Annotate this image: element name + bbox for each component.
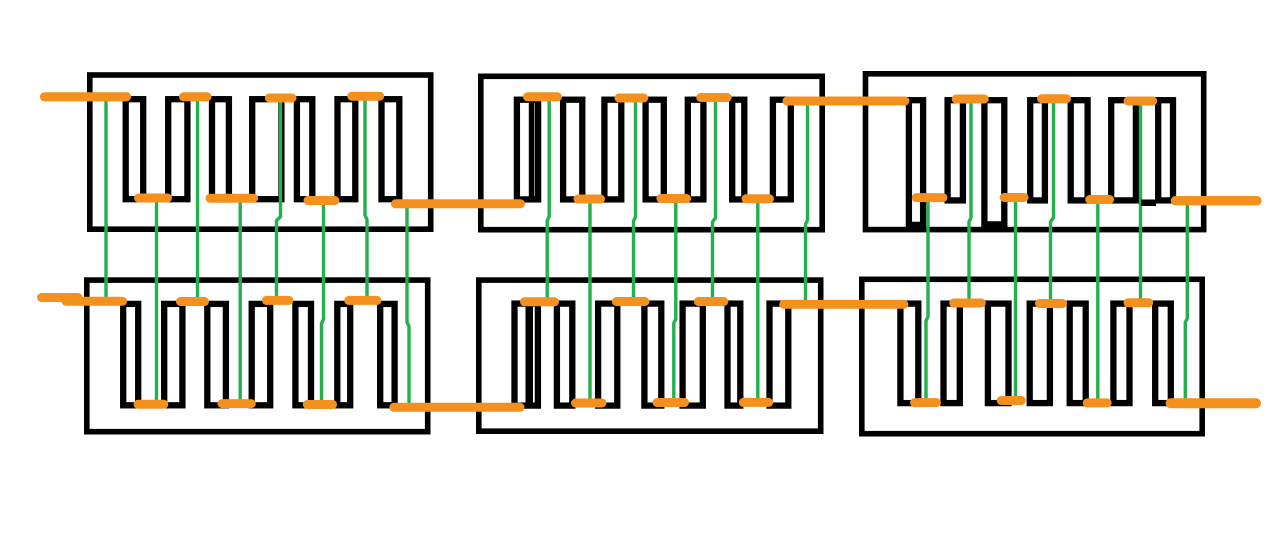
wire W5 M1/M4 strap4 bbox=[277, 101, 281, 300]
wire W17 M3/M6 strap2 bbox=[969, 100, 971, 303]
strap M5-S1 (top C1-C2) bbox=[525, 297, 555, 306]
cell M4-C1 bbox=[123, 304, 138, 405]
cell M3-C7 bbox=[1158, 100, 1173, 200]
wire W14 M2/M5 strap6 bbox=[756, 202, 759, 404]
cell M3-C3 bbox=[984, 100, 1004, 224]
strap M1-S6 (top C6-C7) bbox=[352, 92, 380, 101]
strap M4-S6 (top C6-C7) bbox=[349, 296, 377, 305]
cell M2-C4 bbox=[646, 100, 664, 200]
interconnect L3 (M4 exit -> M5 entry, bottom) bbox=[394, 403, 520, 412]
strap M4-S2 (top C2-C3) bbox=[181, 297, 205, 306]
cell M1-C2 bbox=[168, 99, 187, 199]
cell M5-C4 bbox=[644, 304, 661, 406]
cell M2-C3 bbox=[604, 100, 621, 200]
cell M2-C1 bbox=[517, 100, 538, 200]
strap M3-S2 (top C2-C3) bbox=[956, 95, 984, 104]
strap M6-S1 (bottom C1-C2) bbox=[915, 398, 937, 407]
cell M6-C7 bbox=[1155, 304, 1171, 404]
input lead T3 (M4 entry, top-left) bbox=[42, 298, 123, 302]
strap M4-S5 (bottom C5-C6) bbox=[307, 400, 332, 409]
wire W1 input M1->M4 bbox=[104, 100, 107, 301]
wire W8 link1 M1-M2 -> M4-M5 bbox=[407, 205, 409, 407]
strap M3-S3 (bottom C3-C4) bbox=[1004, 193, 1024, 202]
strap M3-S1 (bottom C1-C2) bbox=[916, 193, 943, 202]
strap M6-S6 (top C6-C7) bbox=[1128, 298, 1149, 307]
wire W19 M3/M6 strap4 bbox=[1051, 99, 1054, 304]
strap M2-S1 (top C1-C2) bbox=[528, 92, 558, 101]
module box M2 bbox=[481, 76, 822, 229]
cell M3-C1 bbox=[909, 100, 923, 225]
cell M6-C4 bbox=[1030, 304, 1050, 404]
wire W4 M1/M4 strap3 bbox=[238, 199, 241, 404]
wire W13 M2/M5 strap5 bbox=[713, 101, 716, 303]
strap M1-S5 (bottom C5-C6) bbox=[308, 196, 335, 205]
strap M4-S4 (top C4-C5) bbox=[266, 296, 289, 305]
strap M2-S6 (bottom C6-C7) bbox=[746, 194, 770, 203]
strap M1-S1 (bottom C1-C2) bbox=[139, 194, 168, 203]
wire W11 M2/M5 strap3 bbox=[634, 100, 636, 302]
strap M1-S2 (top C2-C3) bbox=[184, 92, 208, 101]
cell M5-C7 bbox=[770, 304, 789, 406]
cell M5-C1 bbox=[515, 304, 538, 406]
module box M6 bbox=[862, 279, 1202, 433]
module box M4 bbox=[87, 280, 428, 432]
strap M6-S3 (bottom C3-C4) bbox=[1001, 396, 1021, 405]
cell M6-C1 bbox=[900, 304, 918, 404]
wire W20 M3/M6 strap5 bbox=[1096, 202, 1099, 404]
input lead T1 (M1 entry, top-left) bbox=[45, 92, 127, 101]
cell M5-C2 bbox=[557, 304, 572, 406]
cell M6-C6 bbox=[1113, 304, 1129, 404]
cell M6-C5 bbox=[1070, 304, 1086, 404]
cell M4-C6 bbox=[337, 304, 350, 405]
strap M3-S6 (top C6-C7) bbox=[1128, 97, 1153, 106]
wire W15 link2 M2-M3 -> M5-M6 bbox=[806, 104, 808, 304]
cell M1-C7 bbox=[382, 99, 400, 199]
cell M2-C5 bbox=[688, 100, 704, 200]
output lead T4 (M6 exit, bottom-right) bbox=[1171, 398, 1256, 408]
cell M4-C5 bbox=[295, 304, 311, 405]
cell M3-C7 bottom-bar overshoot bbox=[1141, 200, 1156, 207]
cell M4-C4 bbox=[252, 304, 271, 405]
cell M1-C1 bbox=[126, 99, 144, 199]
cell M4-C2 bbox=[164, 304, 182, 405]
cell M1-C6 bbox=[338, 99, 356, 199]
strap M2-S2 (bottom C2-C3) bbox=[578, 195, 601, 204]
module box M1 bbox=[90, 75, 431, 229]
cell M3-C5 bbox=[1071, 100, 1088, 200]
cell M5-C5 bbox=[683, 304, 703, 406]
interconnect L2 (M2 exit -> M3 entry, top) bbox=[787, 97, 905, 106]
wire W21 M3/M6 strap6 bbox=[1139, 101, 1142, 306]
cell M1-C3 bbox=[212, 99, 229, 199]
strap M5-S2 (bottom C2-C3) bbox=[576, 399, 603, 408]
strap M1-S3 (bottom C3-C4) bbox=[210, 194, 254, 203]
cell M6-C3 bbox=[988, 304, 1009, 404]
cell M3-C6 bbox=[1111, 100, 1136, 200]
interconnect L1 (M1 exit -> M2 entry, bottom) bbox=[396, 199, 521, 208]
interconnect L4 (M5 exit -> M6 entry, top) bbox=[784, 300, 904, 309]
cell M2-C6 bbox=[732, 100, 744, 200]
module box M3 bbox=[866, 74, 1204, 230]
wire W12 M2/M5 strap4 bbox=[674, 202, 676, 404]
strap M6-S5 (bottom C5-C6) bbox=[1087, 398, 1107, 407]
wire W3 M1/M4 strap2 bbox=[196, 99, 199, 302]
strap M1-S4 (top C4-C5) bbox=[269, 94, 292, 103]
cell M5-C6 bbox=[728, 304, 741, 406]
strap M2-S3 (top C3-C4) bbox=[619, 94, 644, 103]
strap M6-S2 (top C2-C3) bbox=[954, 299, 982, 308]
strap M2-S5 (top C5-C6) bbox=[701, 93, 728, 102]
strap M2-S4 (bottom C4-C5) bbox=[661, 194, 687, 203]
wire W9 M2/M5 strap1 bbox=[547, 99, 549, 302]
cell M6-C2 bbox=[944, 304, 960, 404]
strap M4-S3 (bottom C3-C4) bbox=[222, 399, 251, 408]
cell M4-C3 bbox=[207, 304, 226, 405]
strap M5-S6 (bottom C6-C7) bbox=[743, 398, 768, 407]
cell M1-C5 bbox=[297, 99, 312, 199]
wire W18 M3/M6 strap3 bbox=[1014, 197, 1017, 403]
strap M5-S3 (top C3-C4) bbox=[616, 297, 645, 306]
output lead T2 (M3 exit, bottom-right) bbox=[1175, 196, 1257, 205]
wire W7 M1/M4 strap6 bbox=[365, 97, 367, 301]
module box M5 bbox=[479, 280, 821, 431]
strap M6-S4 (top C4-C5) bbox=[1040, 299, 1063, 308]
cell M1-C4 bbox=[252, 99, 281, 199]
wire W6 M1/M4 strap5 bbox=[322, 202, 324, 405]
strap M3-S5 (bottom C5-C6) bbox=[1090, 195, 1110, 204]
wire W10 M2/M5 strap2 bbox=[588, 202, 591, 405]
cell M3-C2 bbox=[948, 100, 963, 200]
cell M2-C7 bbox=[773, 100, 791, 200]
cell M5-C1 doubled right wall bbox=[526, 303, 534, 407]
strap M4-S1 (bottom C1-C2) bbox=[138, 400, 164, 409]
cell M2-C1 doubled right wall bbox=[529, 99, 535, 201]
cell M2-C2 bbox=[563, 100, 582, 200]
cell M5-C3 bbox=[598, 304, 617, 406]
strap M5-S4 (bottom C4-C5) bbox=[657, 398, 685, 407]
strap M3-S4 (top C4-C5) bbox=[1042, 94, 1067, 103]
cell M4-C7 bbox=[380, 304, 394, 405]
wire W16 M3/M6 strap1 bbox=[926, 198, 928, 403]
cell M3-C4 bbox=[1030, 100, 1045, 200]
wire W22 output M3 -> M6 bbox=[1185, 201, 1187, 403]
wire W2 M1/M4 strap1 bbox=[155, 199, 158, 404]
strap M5-S5 (top C5-C6) bbox=[698, 297, 723, 306]
